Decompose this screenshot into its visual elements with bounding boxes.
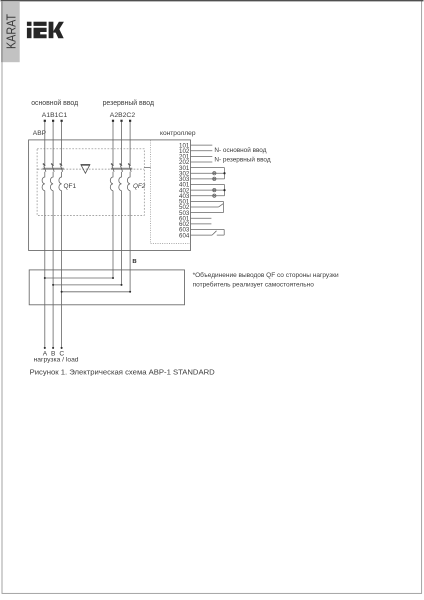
svg-text:резервный ввод: резервный ввод xyxy=(103,99,154,107)
wire B2 load drop xyxy=(121,191,123,285)
svg-text:QF2: QF2 xyxy=(133,183,146,190)
svg-text:в: в xyxy=(132,256,137,265)
wire C1 load drop xyxy=(61,191,63,348)
breaker QF1 pole B contact xyxy=(51,164,54,172)
junction dot 402 xyxy=(223,189,225,191)
breaker QF1 pole C thermal element xyxy=(59,172,62,191)
wire B1 load drop xyxy=(52,191,54,348)
wire terminal 101 N lead xyxy=(191,144,213,146)
svg-text:A2B2C2: A2B2C2 xyxy=(110,112,136,119)
svg-text:Рисунок 1. Электрическая схема: Рисунок 1. Электрическая схема АВР-1 STA… xyxy=(30,368,216,377)
svg-text:A1B1C1: A1B1C1 xyxy=(42,112,68,119)
bus wire phase A join xyxy=(44,277,114,279)
wire terminal 601 lead xyxy=(191,217,212,219)
indicator lamp on 302 xyxy=(213,172,216,175)
breaker QF2 pole A contact xyxy=(111,164,114,172)
breaker QF2 pole C thermal element xyxy=(127,172,130,191)
load bus box xyxy=(29,270,184,305)
wire C1 input drop xyxy=(61,122,63,165)
IEK logo letter E xyxy=(34,22,47,39)
svg-text:N- резервный ввод: N- резервный ввод xyxy=(214,156,270,164)
wire junction vertical 401-403 xyxy=(224,184,226,195)
svg-text:основной ввод: основной ввод xyxy=(31,99,78,107)
linkage bar across QF2 poles xyxy=(111,168,133,170)
svg-text:*Объединение выводов QF со сто: *Объединение выводов QF со стороны нагру… xyxy=(193,271,339,279)
breaker QF1 pole C contact xyxy=(60,164,63,172)
breaker QF2 pole C contact xyxy=(128,164,131,172)
linkage bar across QF1 poles xyxy=(43,168,64,170)
wire C2 load drop xyxy=(129,191,131,292)
ABP enclosure box xyxy=(29,140,191,251)
wire terminal 603 lead xyxy=(191,228,225,230)
wire terminal 102 N lead xyxy=(191,150,213,152)
wire terminal 501 lead xyxy=(191,200,224,202)
wire A2 input drop xyxy=(112,122,114,165)
IEK logo letter i xyxy=(27,22,32,38)
bus wire phase B join xyxy=(52,284,122,286)
wire terminal 503 lead xyxy=(191,212,224,214)
breaker QF2 pole B contact xyxy=(120,164,123,172)
junction dot 302 xyxy=(223,172,225,174)
wire A1 load drop xyxy=(44,191,46,348)
input terminal node B1 xyxy=(52,120,54,122)
breaker module dashed box xyxy=(37,149,144,216)
svg-text:N- основной ввод: N- основной ввод xyxy=(214,146,266,154)
input terminal node B2 xyxy=(120,120,122,122)
breaker QF1 pole A thermal element xyxy=(42,172,45,191)
wire terminal 302 lead xyxy=(191,172,225,174)
input terminal node C2 xyxy=(129,120,131,122)
load arrow C xyxy=(61,347,63,349)
wire terminal 402 lead xyxy=(191,189,225,191)
wire terminal 202 N lead xyxy=(191,161,213,163)
indicator lamp on 403 xyxy=(213,194,216,197)
wire terminal 401 lead xyxy=(191,183,225,185)
link wire breaker to controller xyxy=(144,167,150,169)
indicator lamp on 303 xyxy=(213,177,216,180)
wire junction vertical 501-503 xyxy=(222,201,224,212)
wire A1 input drop xyxy=(44,122,46,165)
bus wire phase C join xyxy=(61,291,132,293)
svg-text:604: 604 xyxy=(179,232,190,239)
svg-text:KARAT: KARAT xyxy=(3,14,18,49)
breaker QF2 pole B thermal element xyxy=(119,172,122,191)
breaker QF1 pole A contact xyxy=(43,164,46,172)
indicator lamp on 402 xyxy=(213,188,216,191)
load arrow B xyxy=(52,347,54,349)
svg-text:потребитель реализует самостоя: потребитель реализует самостоятельно xyxy=(193,280,315,288)
wire terminal 502 lead with changeover blade xyxy=(191,206,219,208)
breaker QF2 pole A thermal element xyxy=(110,172,113,191)
load arrow A xyxy=(44,347,46,349)
wire junction vertical 301-303 xyxy=(224,168,226,179)
wire C2 input drop xyxy=(129,122,131,165)
svg-text:нагрузка / load: нагрузка / load xyxy=(34,357,79,364)
linkage trip triangle xyxy=(81,165,90,174)
svg-text:контроллер: контроллер xyxy=(160,130,196,137)
KARAT sidebar tab xyxy=(1,1,20,62)
svg-text:QF1: QF1 xyxy=(64,183,77,190)
wire B1 input drop xyxy=(52,122,54,165)
wire terminal 604 lead with switch blade xyxy=(191,234,213,236)
wire terminal 403 lead xyxy=(191,195,225,197)
input terminal node A2 xyxy=(112,120,114,122)
IEK logo letter K xyxy=(49,22,64,39)
breaker QF1 pole B thermal element xyxy=(50,172,53,191)
wire terminal 201 N lead xyxy=(191,155,213,157)
wire terminal 301 lead xyxy=(191,167,225,169)
load phase labels A B C xyxy=(43,350,65,357)
wire B2 input drop xyxy=(121,122,123,165)
wire junction vertical 603-604 xyxy=(223,229,225,235)
wire terminal 303 lead xyxy=(191,178,225,180)
controller module dashed boundary xyxy=(151,140,191,243)
input terminal node A1 xyxy=(44,120,46,122)
input terminal node C1 xyxy=(61,120,63,122)
wire terminal 602 lead xyxy=(191,223,212,225)
mechanical linkage dashed line xyxy=(38,168,144,170)
wire A2 load drop xyxy=(112,191,114,278)
